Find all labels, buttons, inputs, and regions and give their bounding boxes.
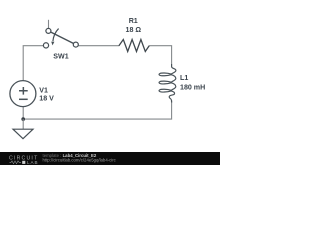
svg-text:R1: R1 [129, 17, 138, 25]
switch SW1 [43, 28, 78, 48]
resistor R1 [119, 40, 149, 52]
svg-text:LAB: LAB [27, 160, 39, 165]
inductor L1 [159, 64, 176, 103]
wire ground stub [22, 119, 24, 129]
wire SW1 common to R1 [78, 45, 119, 47]
svg-text:http://circuitlab.com/c/24e5gq: http://circuitlab.com/c/24e5gq/lab4-circ [43, 158, 117, 163]
node junction dot [21, 117, 25, 121]
footer logo zigzag [10, 161, 22, 164]
switch SW1 stub wire [48, 20, 50, 29]
svg-text:V1: V1 [39, 87, 48, 95]
svg-text:18 Ω: 18 Ω [126, 26, 142, 34]
svg-text:180 mH: 180 mH [180, 83, 205, 91]
wire top-left segment [23, 46, 43, 81]
wire L1 bottom to bottom rail [23, 101, 171, 120]
voltage source V1 [10, 81, 36, 107]
svg-text:SW1: SW1 [53, 53, 68, 61]
switch SW1 arrowhead [51, 42, 54, 46]
footer logo square [22, 161, 25, 164]
svg-text:18 V: 18 V [39, 94, 54, 102]
footer bar [0, 152, 220, 165]
svg-text:L1: L1 [180, 74, 188, 82]
wire V1 negative lead down to ground node [22, 106, 24, 119]
ground [13, 129, 33, 139]
wire R1 to L1 top [149, 46, 172, 64]
